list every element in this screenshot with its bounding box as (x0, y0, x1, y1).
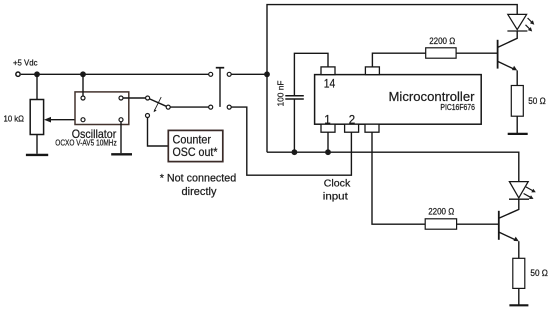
oscillator pin top-right (119, 96, 123, 100)
ground under resistor 50 (top) (508, 133, 528, 135)
svg-text:+5 Vdc: +5 Vdc (13, 59, 38, 68)
pushbutton cap bar (216, 67, 224, 69)
svg-text:input: input (323, 191, 348, 203)
LED D2 (509, 182, 529, 200)
ground under potentiometer (26, 154, 48, 156)
pushbutton actuator (219, 68, 221, 107)
oscillator pin top-left (81, 96, 85, 100)
svg-text:directly: directly (182, 186, 218, 198)
wire resistor to Q2 base (457, 223, 499, 225)
transistor Q1 emitter with arrow (498, 62, 517, 86)
pushbutton contact top-left (209, 72, 213, 76)
switch S1 pole C (166, 105, 170, 109)
switch S1 lever (150, 99, 167, 106)
pushbutton contact bottom-left (209, 105, 213, 109)
svg-text:2: 2 (349, 115, 355, 127)
junction dot pin1 on rail (325, 149, 331, 155)
wire potentiometer bottom (36, 135, 38, 154)
wire rail to junction (231, 73, 267, 75)
transistor Q2 emitter with arrow (499, 232, 519, 258)
LED D1 emission arrows (526, 18, 535, 32)
oscillator pin bottom-right (119, 118, 123, 122)
junction dot capacitor on rail (292, 149, 298, 155)
wire +5V bottom rail (267, 152, 519, 181)
MCU pin 3 stub (bottom) (365, 124, 379, 132)
potentiometer 10 kOhm body (30, 100, 43, 135)
transistor Q1 collector (498, 31, 517, 47)
node +5 Vdc terminal (16, 72, 20, 76)
svg-text:50 Ω: 50 Ω (528, 96, 546, 106)
potentiometer wiper arrow from oscillator (44, 117, 81, 123)
svg-text:OSC out*: OSC out* (173, 147, 218, 159)
svg-text:Microcontroller: Microcontroller (389, 89, 476, 104)
microcontroller U1 box (315, 75, 482, 125)
switch S1 actuation arrow (154, 97, 162, 112)
pushbutton contact top-right (227, 72, 231, 76)
wire +5V rail left (21, 73, 209, 75)
svg-text:10 kΩ: 10 kΩ (4, 114, 25, 123)
switch S1 contact A (oscillator) (146, 96, 150, 100)
junction dot at potentiometer branch (34, 71, 40, 77)
wire pin 1 to rail (327, 132, 329, 152)
svg-text:100 nF: 100 nF (275, 81, 285, 107)
resistor 2200 Ohm (bottom) (425, 219, 456, 229)
wire clock: pushbutton to MCU pin 2 (231, 107, 351, 175)
LED D1 (507, 14, 527, 31)
wire resistor 50 bottom to ground (518, 288, 520, 304)
MCU pin 1 stub (bottom) (321, 124, 335, 132)
wire MCU top stub to resistor 2200 (top) (372, 53, 425, 67)
wire resistor to Q1 base (456, 52, 497, 54)
svg-text:14: 14 (324, 78, 336, 90)
oscillator pin bottom-left (81, 118, 85, 122)
wire potentiometer top (36, 74, 38, 99)
wire switch contact B down (148, 118, 169, 146)
svg-text:Clock: Clock (324, 178, 351, 190)
LED D2 emission arrows (524, 187, 536, 199)
svg-text:2200 Ω: 2200 Ω (428, 207, 454, 217)
wire capacitor top to pin 14 (294, 53, 328, 95)
resistor 50 Ohm (bottom) (513, 258, 525, 288)
svg-text:1: 1 (324, 115, 330, 127)
oscillator box (75, 92, 129, 125)
MCU top-right stub (365, 67, 379, 75)
counter box (168, 130, 223, 161)
MCU pin 14 stub (top) (321, 67, 335, 75)
svg-text:2200 Ω: 2200 Ω (429, 36, 455, 46)
wire supply loop (left vertical + top rail) (267, 5, 517, 153)
transistor Q2 base bar (498, 211, 500, 240)
ground under oscillator (111, 153, 132, 155)
switch S1 contact B (counter) (146, 114, 150, 118)
wire capacitor bottom to rail (293, 99, 295, 152)
pushbutton contact bottom-right (227, 105, 231, 109)
svg-text:50 Ω: 50 Ω (530, 268, 548, 278)
wire oscillator ground (120, 122, 122, 153)
wire switch pole to pushbutton row (170, 106, 208, 108)
svg-text:* Not connected: * Not connected (160, 172, 237, 184)
transistor Q2 collector (499, 199, 518, 218)
wire oscillator supply (82, 74, 84, 95)
resistor 2200 Ohm (top) (426, 48, 456, 58)
capacitor 100 nF plates (285, 96, 304, 99)
transistor Q1 base bar (497, 40, 499, 69)
wire MCU pin 3 to resistor 2200 (bottom) (372, 132, 425, 224)
resistor 50 Ohm (top) (511, 86, 523, 117)
MCU pin 2 stub (bottom) (345, 124, 359, 132)
ground under resistor 50 (bottom) (509, 304, 528, 306)
wire resistor 50 to ground (516, 116, 518, 133)
junction dot at oscillator supply branch (80, 71, 86, 77)
svg-text:Counter: Counter (173, 134, 212, 146)
svg-text:PIC16F676: PIC16F676 (440, 103, 475, 112)
wire oscillator output to switch (123, 97, 145, 99)
svg-text:OCXO V-AV5 10MHz: OCXO V-AV5 10MHz (55, 138, 117, 147)
junction dot main rail / loop (264, 71, 270, 77)
